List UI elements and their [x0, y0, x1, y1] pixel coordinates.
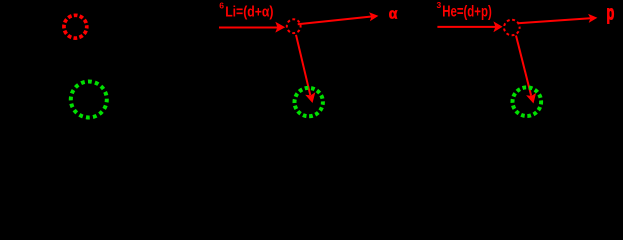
wire: line from 6Li vertex down to deuteron — [296, 35, 310, 95]
svg-text:6: 6 — [219, 1, 224, 11]
svg-text:α: α — [389, 6, 398, 23]
arrowhead into green circle (3He deuteron) — [526, 93, 536, 104]
green dashed circle (deuteron target, left) — [71, 82, 107, 118]
wire: line from 6Li vertex to alpha — [298, 17, 372, 25]
green dashed circle (deuteron from 6Li) — [295, 88, 323, 116]
red dashed circle (3He breakup vertex) — [504, 20, 520, 36]
wire: line from 3He vertex down to deuteron — [516, 36, 531, 96]
red dashed circle (6Li breakup vertex) — [287, 19, 301, 33]
green dashed circle (deuteron from 3He) — [513, 87, 542, 116]
wire: horizontal beam arrow into 6Li vertex — [219, 27, 278, 29]
wire: line from 3He vertex to proton — [518, 18, 591, 23]
arrowhead into green circle (6Li deuteron) — [305, 92, 315, 103]
svg-text:He=(d+p): He=(d+p) — [442, 4, 492, 21]
wire: horizontal beam arrow into 3He vertex — [437, 26, 495, 28]
svg-text:p: p — [607, 3, 615, 25]
arrowhead of horizontal beam arrow (3He) — [493, 21, 502, 32]
arrowhead toward proton — [588, 14, 597, 23]
red dashed circle (6Li projectile, left) — [64, 15, 87, 38]
svg-text:3: 3 — [437, 0, 442, 10]
arrowhead toward alpha — [369, 12, 378, 21]
svg-text:Li=(d+α): Li=(d+α) — [225, 4, 273, 20]
arrowhead of horizontal beam arrow (6Li) — [275, 22, 285, 33]
